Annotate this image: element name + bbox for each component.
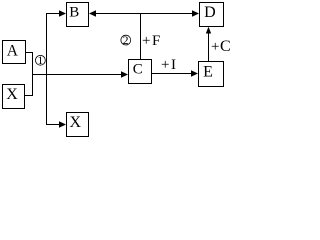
svg-text:A: A	[7, 43, 19, 60]
wire X stub	[24, 95, 33, 97]
svg-text:+F: +F	[142, 33, 160, 49]
wire drop from top line to C	[140, 13, 142, 60]
box D	[200, 3, 224, 27]
arrow into bottom X	[59, 121, 66, 127]
arrow into E left	[191, 70, 198, 76]
svg-text:C: C	[133, 62, 143, 78]
wire main vertical	[46, 13, 48, 125]
wire B to D horizontal	[96, 13, 193, 15]
svg-text:X: X	[6, 86, 18, 103]
svg-text:1: 1	[38, 55, 44, 67]
wire main horizontal to C	[32, 74, 122, 76]
wire A stub	[25, 52, 33, 54]
box C	[129, 60, 152, 84]
label circled 1	[36, 55, 46, 67]
box X bottom	[67, 113, 89, 137]
svg-text:B: B	[69, 5, 79, 21]
arrow into B right (pointing left)	[89, 10, 96, 16]
svg-text:X: X	[70, 114, 82, 131]
box B	[67, 3, 89, 27]
wire E to D vertical	[208, 33, 210, 61]
arrow into B left	[59, 10, 66, 16]
svg-text:+C: +C	[211, 38, 231, 55]
wire branch to B	[46, 13, 60, 15]
box A	[3, 41, 26, 64]
svg-text:+I: +I	[161, 57, 176, 73]
box X left	[3, 85, 25, 109]
arrow into D left	[192, 10, 199, 16]
svg-text:2: 2	[123, 35, 129, 47]
arrow into C	[121, 71, 128, 77]
arrow into D bottom (pointing up)	[206, 27, 211, 34]
wire C to E	[151, 73, 192, 75]
box E	[199, 62, 224, 87]
wire bracket vertical	[32, 52, 34, 96]
label circled 2	[121, 35, 131, 47]
wire branch to bottom X	[46, 124, 60, 126]
svg-text:E: E	[203, 64, 213, 81]
svg-text:D: D	[204, 4, 216, 21]
